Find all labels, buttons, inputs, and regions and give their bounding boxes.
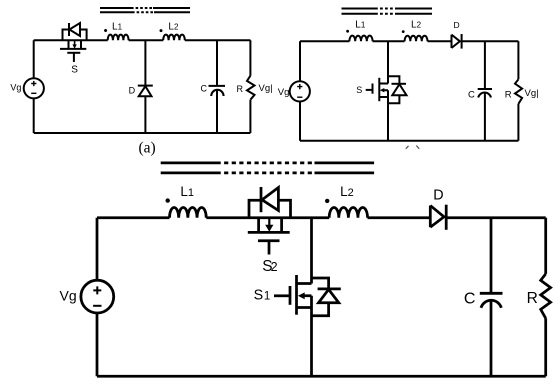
svg-text:(a): (a) <box>139 139 156 156</box>
source stub S1 <box>297 306 312 309</box>
svg-text:L2: L2 <box>168 22 179 33</box>
svg-text:R: R <box>237 84 244 94</box>
svg-text:2: 2 <box>271 260 278 274</box>
minus sign of Vg (a) <box>31 92 36 94</box>
switch S2: MOSFET body <box>248 218 290 255</box>
svg-text:S: S <box>254 287 264 303</box>
minus sign of Vg (b) <box>297 96 302 98</box>
svg-text:Vg|: Vg| <box>259 83 273 94</box>
svg-text:R: R <box>527 290 538 307</box>
switch S1: MOSFET <box>274 275 312 315</box>
wire capacitor branch (bottom) <box>490 218 493 377</box>
body diode of S (b) <box>388 76 407 103</box>
svg-text:C: C <box>464 291 476 308</box>
polarity dot L2 (a) <box>160 29 163 32</box>
arrow line S1 <box>303 296 312 308</box>
switch S (b): MOSFET <box>366 41 388 140</box>
svg-text:1: 1 <box>264 290 270 302</box>
coupling core bars (a) <box>100 8 190 12</box>
plus sign of Vg (bottom) <box>93 286 101 294</box>
wire diode branch (a) <box>144 40 146 133</box>
plus sign of Vg (b) <box>297 84 302 89</box>
polarity dot L1 (bottom) <box>166 198 170 202</box>
svg-text:Vg: Vg <box>278 87 290 98</box>
diode D (a) <box>138 86 153 97</box>
diode D (bottom) <box>430 205 446 230</box>
wire left rail (bottom) <box>96 218 99 377</box>
switch S (a): MOSFET body <box>60 40 86 62</box>
wire bottom rail (b) <box>300 140 518 142</box>
svg-text:C: C <box>201 84 208 94</box>
body diode of S1 <box>312 278 341 316</box>
wire top rail (bottom) <box>97 216 546 219</box>
wire right rail (b) <box>517 41 519 140</box>
gate lead S (b) <box>366 89 373 91</box>
minus sign of Vg (bottom) <box>93 305 101 307</box>
gate bar S (b) <box>372 84 374 94</box>
svg-text:C: C <box>468 90 475 101</box>
wire middle node branch (bottom) <box>310 218 313 377</box>
switch S2: antiparallel diode branch <box>249 187 291 218</box>
source Vg (b) <box>290 81 310 101</box>
wire left rail (b) <box>299 41 301 140</box>
wire left rail (a) <box>33 40 35 133</box>
switch S (a): antiparallel diode branch <box>63 23 87 40</box>
source Vg (bottom) <box>81 280 114 313</box>
polarity dot L1 (a) <box>104 29 107 32</box>
svg-text:Vg: Vg <box>60 288 77 304</box>
svg-text:L1: L1 <box>112 22 123 33</box>
inductor L1 (a) <box>108 35 129 41</box>
source Vg (a) <box>24 78 44 98</box>
svg-text:L2: L2 <box>411 20 422 31</box>
gate lead S1 <box>274 294 290 297</box>
capacitor C (a) <box>209 86 226 96</box>
wire capacitor branch (b) <box>484 41 486 140</box>
wire bottom rail (a) <box>34 132 251 134</box>
plus sign of Vg (a) <box>31 81 36 86</box>
diode D (b) <box>452 34 462 49</box>
inductor L1 (bottom) <box>169 207 206 217</box>
wire top rail (b) <box>300 40 518 42</box>
arrow line S (b) <box>383 90 389 97</box>
svg-text:D: D <box>454 20 460 30</box>
svg-text:D: D <box>433 188 443 204</box>
capacitor C (b) <box>478 89 492 98</box>
svg-text:L1: L1 <box>355 20 366 31</box>
source stub S (b) <box>379 96 388 98</box>
capacitor C (bottom) <box>480 293 503 308</box>
inductor L2 (bottom) <box>329 207 367 217</box>
svg-text:Vg|: Vg| <box>525 88 539 99</box>
coupling core bars (b) <box>342 9 433 14</box>
wire top rail (a) <box>34 39 251 41</box>
resistor R (b) <box>515 79 522 104</box>
channel bar S (b) <box>378 78 380 101</box>
switch S2: arrow <box>268 218 270 226</box>
wire capacitor branch (a) <box>216 40 218 133</box>
svg-text:L1: L1 <box>180 184 194 199</box>
inductor L2 (b) <box>405 36 428 42</box>
svg-text:L2: L2 <box>340 184 354 199</box>
arrowhead S1 <box>298 292 305 299</box>
svg-text:S: S <box>71 64 78 75</box>
resistor R (bottom) <box>541 274 551 318</box>
polarity dot L2 (bottom) <box>325 199 329 203</box>
drain stub S (b) <box>379 83 388 85</box>
svg-text:R: R <box>505 90 512 101</box>
wire source lead S (b) <box>387 97 389 141</box>
resistor R (a) <box>247 76 255 100</box>
polarity dot L1 (b) <box>346 30 349 33</box>
svg-text:D: D <box>129 86 136 96</box>
label (b) remnants <box>406 146 419 149</box>
coupling core bars (bottom) <box>161 163 374 173</box>
inductor L1 (b) <box>349 36 372 42</box>
wire right rail (bottom) <box>544 218 547 377</box>
wire bottom rail (bottom) <box>97 375 546 378</box>
inductor L2 (a) <box>163 35 185 41</box>
wire right rail (a) <box>249 40 251 133</box>
drain stub S1 <box>297 282 312 285</box>
svg-text:S: S <box>356 85 362 95</box>
svg-text:Vg: Vg <box>10 82 21 92</box>
wire drain lead S (b) <box>387 41 389 83</box>
switch S (a): arrow <box>74 40 76 45</box>
channel bar S1 <box>295 275 298 315</box>
arrowhead S (b) <box>380 88 385 92</box>
gate bar S1 <box>289 286 292 305</box>
polarity dot L2 (b) <box>402 30 405 33</box>
